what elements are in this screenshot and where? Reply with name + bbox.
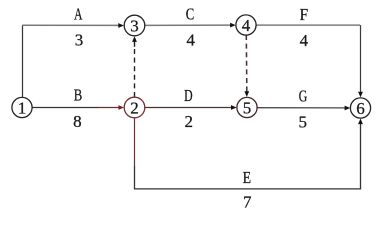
arrowhead edge B into node 2 <box>118 105 124 110</box>
arrowhead edge A into node 3 <box>118 23 124 28</box>
wire: dashed dummy from node 4 down to node 5 <box>245 35 248 87</box>
arrowhead dashed dummy into node 5 (pointing down) <box>244 91 249 97</box>
arrowhead edge E into node 6 (pointing up) <box>358 119 363 125</box>
wire: edge F from node 4 right then down to node 6 <box>256 24 360 26</box>
svg-text:E: E <box>243 168 252 187</box>
svg-text:2: 2 <box>130 98 139 117</box>
wire: dashed dummy from node 2 up to node 3 <box>134 47 136 98</box>
arrowhead edge D into node 5 <box>231 105 237 110</box>
wire: vertical from node 1 up to top-left corner <box>22 25 24 97</box>
svg-text:A: A <box>74 5 83 24</box>
wire: edge A horizontal into node 3 <box>22 24 119 26</box>
svg-text:2: 2 <box>184 112 193 131</box>
svg-text:6: 6 <box>356 99 365 118</box>
node 5 <box>237 97 257 117</box>
node 1 <box>12 97 32 117</box>
node 6 <box>350 98 370 118</box>
svg-text:5: 5 <box>299 113 308 132</box>
arrowhead edge G into node 6 <box>345 106 351 111</box>
wire: edge C from node 3 to node 4 <box>145 24 231 26</box>
node 2 <box>124 97 145 118</box>
arrowhead dashed dummy into node 3 <box>132 36 137 42</box>
svg-text:B: B <box>74 85 83 104</box>
svg-text:7: 7 <box>243 193 252 212</box>
svg-text:5: 5 <box>243 98 252 117</box>
svg-text:4: 4 <box>300 31 309 50</box>
arrowhead edge F into node 6 (pointing down) <box>358 92 363 98</box>
svg-text:8: 8 <box>73 112 82 131</box>
svg-text:D: D <box>184 86 193 105</box>
svg-text:G: G <box>299 86 308 105</box>
node 3 <box>124 15 145 36</box>
wire: edge G from node 5 to node 6 <box>257 107 345 109</box>
svg-text:3: 3 <box>75 30 84 49</box>
svg-text:1: 1 <box>18 98 27 117</box>
svg-text:3: 3 <box>130 16 139 35</box>
svg-text:F: F <box>300 5 309 24</box>
wire: edge D from node 2 to node 5 <box>145 107 232 109</box>
svg-text:C: C <box>186 5 195 24</box>
wire: edge B from node 1 to node 2 <box>32 107 98 109</box>
wire: edge E from node 2 down, along bottom, up into node 6 <box>134 118 136 166</box>
node 4 <box>236 15 256 35</box>
arrowhead edge C into node 4 <box>230 23 236 28</box>
svg-text:4: 4 <box>242 16 251 35</box>
svg-text:4: 4 <box>186 31 195 50</box>
